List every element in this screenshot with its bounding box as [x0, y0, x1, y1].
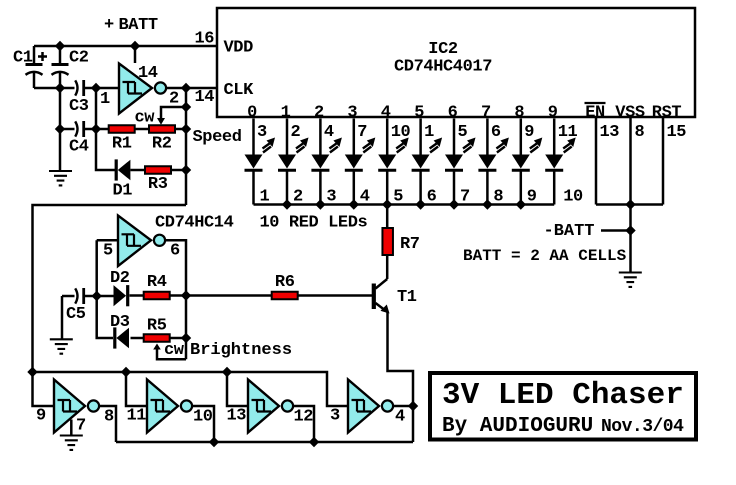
svg-text:3: 3 [257, 123, 267, 142]
svg-text:R1: R1 [112, 135, 132, 154]
LED D4 arrow [363, 138, 376, 153]
label 10 RED LEDs [260, 214, 368, 233]
svg-text:9: 9 [524, 123, 534, 142]
label pin 4 [324, 123, 334, 142]
svg-text:RST: RST [652, 104, 682, 123]
svg-text:0: 0 [247, 104, 257, 123]
wire LED10 cathode to bus [553, 171, 556, 205]
op-amp U1C schmitt inverter pins 9-8 [54, 380, 85, 433]
label cw speed [135, 109, 156, 128]
label LED cathode 3 [326, 188, 336, 207]
svg-text:R3: R3 [148, 175, 168, 194]
svg-text:16: 16 [195, 30, 215, 49]
svg-text:7: 7 [76, 417, 86, 436]
wire R6 left [186, 294, 272, 297]
wire LED4 cathode to bus [353, 171, 356, 205]
LED D6 [412, 155, 430, 171]
LED D2 [278, 155, 296, 171]
svg-text:BATT: BATT [119, 16, 158, 35]
LED D10 arrow [563, 138, 576, 153]
label pin 9 [524, 123, 534, 142]
label T1 [397, 288, 417, 307]
node R3 right [181, 165, 191, 175]
label C2 [69, 49, 89, 68]
wire IC2 pin 10 to LED5 [386, 119, 389, 155]
label IC2 output 4 [381, 104, 391, 123]
label pin 11 [558, 123, 578, 142]
svg-text:14: 14 [195, 88, 215, 107]
node -BATT junction [625, 225, 635, 235]
label R5 [147, 317, 167, 336]
node LED bus junction 9 [516, 199, 526, 209]
svg-text:3: 3 [330, 407, 340, 426]
wire CLK node vertical down to feedback [185, 88, 188, 205]
svg-text:13: 13 [600, 123, 620, 142]
resistor R4 [144, 292, 170, 300]
svg-text:C3: C3 [69, 97, 89, 116]
ground pin 7 [60, 436, 83, 450]
wire U1E output to bus [293, 406, 314, 442]
diode D3 [115, 327, 129, 348]
wire D2 to R4 [130, 294, 145, 297]
node emitter / inverter 4 output junction [408, 401, 418, 411]
svg-text:8: 8 [104, 408, 114, 427]
wire EN pin 13 [595, 118, 598, 205]
wire ground rail vertical [59, 88, 62, 171]
capacitor C5 [62, 288, 97, 304]
node wiper tap [181, 102, 191, 112]
resistor R6 [272, 292, 298, 300]
label R3 [148, 175, 168, 194]
node rail / inverter3 input [222, 367, 232, 377]
wire feedback to buffer rail [33, 205, 187, 372]
svg-text:D2: D2 [110, 269, 130, 288]
U1C output bubble [88, 400, 99, 411]
svg-text:12: 12 [294, 408, 314, 427]
svg-text:6: 6 [170, 242, 180, 261]
label Speed [193, 128, 242, 147]
label CD74HC4017 [394, 58, 492, 77]
ground -BATT [619, 273, 642, 287]
label pin 4 [395, 408, 405, 427]
label pin 7 [357, 123, 367, 142]
wire EN-VSS-RST tie [596, 203, 663, 206]
LED D9 [512, 155, 530, 171]
label LED cathode 7 [460, 188, 470, 207]
label IC2 output 8 [514, 104, 524, 123]
svg-text:By AUDIOGURU: By AUDIOGURU [442, 415, 593, 438]
node rail / inverter1 input [27, 367, 37, 377]
LED D7 arrow [463, 138, 476, 153]
diode D1 [116, 159, 130, 180]
svg-text:R7: R7 [400, 235, 420, 254]
label C3 [69, 97, 89, 116]
U1A output bubble [155, 82, 166, 93]
svg-text:3: 3 [347, 104, 357, 123]
wire R1-R2 link [135, 128, 149, 131]
label pin 3 [257, 123, 267, 142]
svg-text:Nov.3/04: Nov.3/04 [601, 417, 684, 437]
svg-text:7: 7 [481, 104, 491, 123]
svg-text:-BATT: -BATT [544, 222, 595, 241]
node output bus junction 2 [209, 437, 219, 447]
wire buffer input rail [33, 372, 349, 406]
wire D1 to R3 [131, 169, 146, 172]
label pin 16 VDD [195, 30, 215, 49]
wire ground rail horizontal [34, 87, 75, 90]
wire T1 base from R6 [299, 294, 373, 297]
label pin 5 [458, 123, 468, 142]
wire buffer output bus [116, 441, 413, 444]
label pin 6 [170, 242, 180, 261]
op-amp U1D schmitt inverter pins 11-10 [147, 380, 178, 433]
wire +BATT top rail [34, 45, 216, 48]
wire IC2 pin 2 to LED2 [286, 119, 289, 155]
wire LED cathode bus [254, 203, 555, 206]
label -BATT [544, 222, 595, 241]
wire -BATT stub [601, 229, 631, 232]
wire U1D output to bus [192, 406, 214, 442]
label R6 [275, 273, 295, 292]
wire LED3 cathode to bus [319, 171, 322, 205]
svg-text:2: 2 [314, 104, 324, 123]
svg-text:T1: T1 [397, 288, 417, 307]
svg-text:IC2: IC2 [428, 40, 458, 59]
LED D5 arrow [396, 138, 409, 153]
label pin 7 [76, 417, 86, 436]
LED D7 [445, 155, 463, 171]
wire U1B input [97, 239, 118, 242]
label pin 8 [635, 123, 645, 142]
op-amp U1E schmitt inverter pins 13-12 [248, 380, 279, 433]
svg-text:5: 5 [103, 242, 113, 261]
transistor T1 NPN [374, 279, 390, 314]
svg-text:BATT = 2 AA CELLS: BATT = 2 AA CELLS [463, 247, 627, 265]
label pin 12 [294, 408, 314, 427]
wire IC2 pin 5 to LED7 [453, 119, 456, 155]
wire LED6 cathode to bus [419, 171, 422, 205]
svg-text:1: 1 [424, 123, 434, 142]
label IC2 output 2 [314, 104, 324, 123]
label D3 [110, 313, 130, 332]
svg-text:CLK: CLK [224, 81, 255, 100]
LED D5 [378, 155, 396, 171]
label pin 11 [127, 407, 147, 426]
wire pin 14 supply lead [134, 46, 137, 63]
node C5 / D2 / pin5 junction [92, 291, 102, 301]
U1F output bubble [382, 400, 393, 411]
svg-text:C5: C5 [66, 305, 86, 324]
label EN with overline [585, 103, 606, 123]
label pin 14 CLK of IC2 [195, 88, 215, 107]
resistor R2 speed potentiometer [149, 125, 175, 133]
title text 3V LED Chaser [442, 378, 684, 413]
wire C5 to ground [61, 296, 64, 339]
op-amp U1A schmitt inverter pins 1-2 [119, 64, 152, 114]
wire IC2 pin 6 to LED8 [486, 119, 489, 155]
label pin 2 of U1A [169, 90, 179, 109]
label LED cathode 5 [393, 188, 403, 207]
svg-text:R4: R4 [147, 273, 167, 292]
node LED bus junction 6 [415, 199, 425, 209]
wire CLK from U1A output to IC2 [166, 87, 216, 90]
svg-text:11: 11 [127, 407, 147, 426]
svg-text:9: 9 [36, 407, 46, 426]
label pin 13 [600, 123, 620, 142]
wire RST pin 15 [662, 118, 665, 205]
wire speed pot wiper [161, 107, 186, 119]
title box frame [430, 373, 696, 440]
node LED bus junction 5 [382, 199, 392, 209]
wire IC2 pin 4 to LED3 [319, 119, 322, 155]
LED D10 [545, 155, 563, 171]
node R5 right / wiper junction [181, 333, 191, 343]
node VSS tie junction [625, 199, 635, 209]
svg-text:D3: D3 [110, 313, 130, 332]
label IC2 output 9 [548, 104, 558, 123]
svg-text:13: 13 [227, 407, 247, 426]
wire LED2 cathode to bus [286, 171, 289, 205]
capacitor C4 [60, 121, 108, 137]
wire LED7 cathode to bus [453, 171, 456, 205]
label pin 6 [491, 123, 501, 142]
label pin 13 [227, 407, 247, 426]
LED D9 arrow [530, 138, 543, 153]
diode D2 [97, 285, 128, 306]
wire C4 node down to D1 row [96, 129, 115, 170]
wire LED8 cathode to bus [486, 171, 489, 205]
label CD74HC14 [155, 214, 234, 233]
wire pin 7 ground lead [70, 420, 73, 436]
label C4 [69, 138, 89, 157]
label LED cathode 1 [260, 188, 270, 207]
svg-text:1: 1 [100, 90, 110, 109]
label IC2 output 7 [481, 104, 491, 123]
label pin 10 [391, 123, 411, 142]
label BATT = 2 AA CELLS [463, 247, 627, 265]
wire LED5 cathode to bus [386, 171, 389, 205]
label cw brightness [164, 341, 185, 360]
LED D1 arrow [263, 138, 276, 153]
svg-text:C4: C4 [69, 138, 89, 157]
wire U1B output to feedback vertical [165, 240, 186, 359]
label D1 [113, 182, 133, 201]
wire LED9 cathode to bus [520, 171, 523, 205]
U1B output bubble [154, 235, 165, 246]
wire IC2 pin 9 to LED9 [520, 119, 523, 155]
svg-text:+: + [104, 16, 114, 35]
svg-text:10: 10 [563, 188, 583, 207]
svg-text:4: 4 [395, 408, 405, 427]
label VSS [615, 104, 645, 123]
C1 polarity plus sign [38, 52, 47, 61]
ground under C1-C4 rail [49, 171, 72, 185]
node LED bus junction 3 [315, 199, 325, 209]
svg-text:cw: cw [164, 341, 185, 360]
wire R2 right to node [175, 128, 186, 131]
label R4 [147, 273, 167, 292]
svg-text:3V LED Chaser: 3V LED Chaser [442, 378, 684, 413]
wire IC2 pin 7 to LED4 [353, 119, 356, 155]
node +BATT junction to inverter pin 14 [130, 41, 140, 51]
node ground rail / C2 bottom [55, 83, 65, 93]
label R2 [152, 135, 172, 154]
capacitor C1 [26, 46, 43, 88]
label IC2 output 0 [247, 104, 257, 123]
node pin1 / C3 junction [91, 83, 101, 93]
node R4 right / R6 junction [181, 290, 191, 300]
wire U1F output to emitter node [393, 405, 413, 408]
wire IC2 pin 1 to LED6 [419, 119, 422, 155]
node R2 right speed node [181, 124, 191, 134]
svg-text:6: 6 [448, 104, 458, 123]
LED D3 [311, 155, 329, 171]
resistor R5 brightness potentiometer [144, 334, 170, 342]
svg-text:10: 10 [193, 408, 213, 427]
op-amp U1B schmitt inverter pins 5-6 [118, 216, 151, 267]
label LED cathode 6 [427, 188, 437, 207]
label IC2 output 3 [347, 104, 357, 123]
node rail / inverter2 input [121, 367, 131, 377]
wire U1C output to bus [99, 406, 116, 442]
wire VSS pin 8 down to ground [629, 118, 632, 273]
node LED bus junction 4 [349, 199, 359, 209]
svg-text:VDD: VDD [224, 39, 254, 58]
label R7 [400, 235, 420, 254]
LED D2 arrow [296, 138, 309, 153]
label pin 1 of U1A [100, 90, 110, 109]
LED D8 [478, 155, 496, 171]
label LED cathode 10 [563, 188, 583, 207]
LED D4 [345, 155, 363, 171]
label D2 [110, 269, 130, 288]
LED D8 arrow [496, 138, 509, 153]
svg-text:8: 8 [635, 123, 645, 142]
label pin 5 [103, 242, 113, 261]
capacitor C2 [52, 46, 69, 88]
svg-text:C2: C2 [69, 49, 89, 68]
label IC2 output 1 [281, 104, 291, 123]
label pin 8 [104, 408, 114, 427]
label IC2 [428, 40, 458, 59]
wire D3 to R5 [131, 337, 145, 340]
node C4 right / R1 left [91, 124, 101, 134]
brightness pot wiper [153, 344, 186, 360]
svg-text:2: 2 [291, 123, 301, 142]
node +BATT junction to C2 [55, 41, 65, 51]
wire R3 right to node [172, 169, 187, 172]
LED D6 arrow [430, 138, 443, 153]
label Brightness [190, 341, 292, 360]
svg-text:6: 6 [491, 123, 501, 142]
label C1 [13, 49, 33, 68]
wire IC2 pin 11 to LED10 [553, 119, 556, 155]
label pin 10 [193, 408, 213, 427]
wire T1 emitter to buffer outputs [388, 312, 414, 442]
svg-text:1: 1 [281, 104, 291, 123]
svg-text:R2: R2 [152, 135, 172, 154]
svg-text:CD74HC4017: CD74HC4017 [394, 58, 492, 77]
wire inverter U1E input [227, 372, 248, 406]
label pin 3 [330, 407, 340, 426]
svg-text:9: 9 [548, 104, 558, 123]
resistor R3 [145, 166, 171, 174]
svg-text:R6: R6 [275, 273, 295, 292]
label VDD [224, 39, 254, 58]
svg-text:Speed: Speed [193, 128, 242, 147]
node ground rail / C4 left [55, 124, 65, 134]
capacitor C3 [75, 80, 119, 96]
LED D3 arrow [329, 138, 342, 153]
label LED cathode 4 [360, 188, 370, 207]
node CLK junction [181, 83, 191, 93]
node LED bus junction 8 [482, 199, 492, 209]
svg-text:CD74HC14: CD74HC14 [155, 214, 234, 233]
svg-text:5: 5 [458, 123, 468, 142]
wire C3 node down to C4 node [95, 88, 98, 129]
svg-text:10 RED LEDs: 10 RED LEDs [260, 214, 368, 233]
speed pot wiper arrow [157, 118, 165, 125]
svg-text:4: 4 [381, 104, 391, 123]
U1D output bubble [181, 400, 192, 411]
node LED bus junction 7 [449, 199, 459, 209]
node output bus junction 3 [309, 437, 319, 447]
LED D1 [245, 155, 263, 171]
IC IC2 CD74HC4017 body [217, 8, 695, 117]
svg-text:4: 4 [324, 123, 334, 142]
wire inverter U1D input [126, 372, 147, 406]
label IC2 output 5 [414, 104, 424, 123]
wire R4 right to node [170, 294, 186, 297]
wire inverter U1C input [33, 372, 55, 406]
label pin 9 [36, 407, 46, 426]
svg-text:2: 2 [169, 90, 179, 109]
label RST [652, 104, 682, 123]
resistor R1 [109, 125, 135, 133]
label LED cathode 2 [293, 188, 303, 207]
label LED cathode 9 [527, 188, 537, 207]
svg-text:R5: R5 [147, 317, 167, 336]
svg-text:Brightness: Brightness [190, 341, 292, 360]
svg-text:8: 8 [514, 104, 524, 123]
svg-text:15: 15 [667, 123, 687, 142]
svg-text:7: 7 [357, 123, 367, 142]
subtitle By AUDIOGURU Nov.3/04 [442, 415, 684, 438]
label R1 [112, 135, 132, 154]
svg-text:D1: D1 [113, 182, 133, 201]
label pin 14 of U1A [138, 64, 158, 83]
U1E output bubble [282, 400, 293, 411]
label LED cathode 8 [493, 188, 503, 207]
op-amp U1F schmitt inverter pins 3-4 [348, 380, 379, 433]
wire U1B input down to C5/D2/D3 [97, 240, 113, 338]
svg-text:5: 5 [414, 104, 424, 123]
label IC2 output 6 [448, 104, 458, 123]
ground under C5 [50, 339, 73, 353]
label pin 2 [291, 123, 301, 142]
label +BATT [104, 16, 158, 35]
svg-text:C1: C1 [13, 49, 33, 68]
label pin 15 [667, 123, 687, 142]
label pin 1 [424, 123, 434, 142]
label CLK [224, 81, 255, 100]
node LED bus junction 2 [282, 199, 292, 209]
wire R5 right to node [170, 337, 186, 340]
wire LED1 cathode to bus [252, 171, 255, 205]
label C5 [66, 305, 86, 324]
resistor R7 [382, 205, 393, 280]
wire IC2 pin 3 to LED1 [252, 119, 255, 155]
